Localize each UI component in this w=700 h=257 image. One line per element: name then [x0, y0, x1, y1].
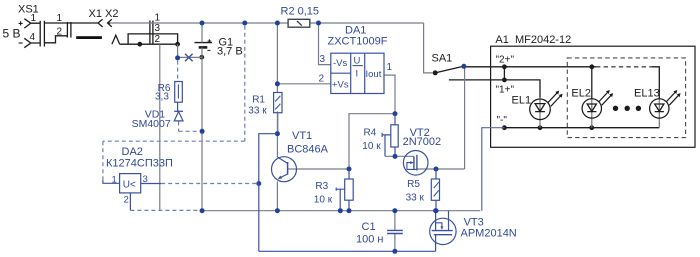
wire EL2 anode column — [591, 67, 593, 99]
svg-text:1: 1 — [31, 13, 37, 24]
wire X2 sleeve long drop to DA2 net — [159, 44, 161, 210]
junction dot rail right of R2 — [316, 21, 321, 26]
X mark broken connection — [185, 54, 193, 62]
svg-text:К1274СП33П: К1274СП33П — [106, 157, 173, 169]
junction dot VT3 drain on rail — [433, 208, 438, 213]
svg-text:"2+": "2+" — [496, 54, 515, 65]
plug body pin 2 step outline — [44, 36, 67, 43]
wire DA1 pin2 to shunt left — [277, 83, 330, 85]
terminal dot "2+" — [502, 64, 507, 69]
svg-text:10 к: 10 к — [362, 141, 381, 152]
battery G1 positive long plate — [195, 42, 213, 44]
plug body top line to X1 — [44, 22, 98, 24]
connector XS1 polarity minus sign — [19, 42, 23, 44]
svg-text:DA2: DA2 — [122, 146, 143, 158]
dashed option wire VD1 to battery column — [179, 122, 200, 132]
ellipsis bullets between EL2 and EL13 — [613, 106, 618, 111]
junction dot rail at dashed branch — [242, 21, 247, 26]
SECTION: wires — [110, 23, 480, 251]
battery G1 minus mark — [207, 49, 210, 51]
svg-text:-Vs: -Vs — [333, 58, 348, 69]
junction dot R1 bottom collector node — [275, 131, 280, 136]
svg-text:R4: R4 — [364, 127, 377, 138]
svg-text:3,7 В: 3,7 В — [217, 46, 243, 58]
svg-text:3: 3 — [143, 174, 148, 185]
svg-text:1: 1 — [57, 13, 63, 24]
wire VT1 base horizontal — [288, 168, 349, 170]
module A1 inner dashed group box — [567, 58, 685, 138]
wire "-" return rail inside module — [504, 127, 659, 129]
svg-text:2: 2 — [155, 34, 161, 45]
dashed wire DA2 pin2 to middle rail — [130, 209, 199, 211]
svg-text:EL1: EL1 — [512, 95, 532, 107]
DA1 U over I fraction line — [353, 65, 363, 67]
wire DA2 pin3 node down through rail — [258, 184, 260, 252]
svg-text:EL13: EL13 — [634, 87, 660, 99]
wire rail drop to switch SA1 — [424, 23, 433, 73]
junction dot VD1 option on battery column — [200, 129, 205, 134]
wire C1 top lead — [394, 211, 396, 231]
dashed wire DA2 pin3 to node — [161, 183, 256, 185]
junction dot R4 bottom VT2 gate — [393, 154, 398, 159]
transistor VT2 mosfet — [403, 151, 428, 176]
svg-text:U: U — [354, 56, 361, 67]
svg-text:1: 1 — [112, 174, 117, 185]
svg-text:ZXCT1009F: ZXCT1009F — [328, 36, 388, 48]
svg-text:3: 3 — [155, 23, 161, 34]
resistor R5 — [431, 169, 439, 211]
svg-text:VT1: VT1 — [292, 130, 312, 142]
plug sleeve thick bar — [76, 36, 102, 39]
svg-text:33 к: 33 к — [406, 193, 425, 204]
svg-text:3: 3 — [320, 54, 326, 65]
switch SA1 lever — [437, 66, 463, 72]
junction dot R5 bottom on rail — [434, 208, 439, 213]
wire module minus to rail end — [482, 128, 505, 211]
junction dot DA2 pin3 node — [256, 181, 261, 186]
plug X1 contact chevron — [98, 19, 103, 27]
terminal dot "-" — [502, 125, 507, 130]
wire DA1 pin1 Iout down — [384, 75, 395, 114]
junction dot EL2 cathode — [589, 125, 594, 130]
capacitor C1 — [387, 230, 403, 233]
jack X2 mating double bars — [150, 21, 153, 44]
dashed option wire rail to DA2 pin1 — [103, 26, 245, 180]
shunt resistor R2 — [288, 19, 310, 27]
wire DA2 pin1 stub — [103, 180, 120, 183]
junction dot VT2 source R5 top — [434, 167, 439, 172]
SECTION: connectors — [19, 19, 695, 148]
wire R1 node L to DA2 pin3 node — [259, 134, 278, 184]
wire battery negative column — [201, 47, 203, 210]
junction dot R3 tap on rail — [338, 208, 343, 213]
svg-text:A1 MF2042-12: A1 MF2042-12 — [495, 34, 571, 46]
svg-text:DA1: DA1 — [345, 25, 366, 37]
trimmer resistor R4 — [382, 114, 398, 157]
battery G1 negative short plate — [199, 46, 208, 49]
wire battery positive to rail — [201, 23, 203, 43]
svg-text:4: 4 — [30, 32, 36, 43]
wire "2+" rail inside module — [466, 66, 596, 68]
svg-text:2: 2 — [124, 194, 129, 205]
wire SA1 throw column down to VT2 — [464, 66, 466, 169]
module A1 enclosure box — [491, 46, 695, 147]
svg-text:R1: R1 — [252, 95, 265, 106]
svg-text:5 В: 5 В — [3, 26, 21, 40]
jack X2 body outline — [120, 34, 178, 44]
transistor VT3 mosfet — [430, 211, 456, 252]
junction dot switch throw node — [461, 64, 466, 69]
junction dot middle rail battery column — [200, 208, 205, 213]
svg-text:2: 2 — [319, 73, 325, 84]
svg-text:X1 X2: X1 X2 — [89, 8, 119, 20]
LED EL13 — [650, 90, 681, 128]
svg-text:EL2: EL2 — [571, 87, 591, 99]
wire Iout node to VT1 base column — [349, 114, 395, 169]
svg-text:C1: C1 — [362, 221, 376, 233]
svg-text:R2 0,15: R2 0,15 — [281, 6, 320, 18]
trimmer resistor R3 — [336, 169, 353, 211]
junction dot rail at R1 column — [275, 21, 280, 26]
svg-text:3,3: 3,3 — [155, 92, 169, 103]
svg-text:1: 1 — [387, 62, 393, 73]
wire middle minus rail — [202, 210, 480, 212]
junction dot X2 pins 2-3 tie — [175, 42, 180, 47]
wire "1+" rail from switch throw to EL1 — [449, 80, 540, 98]
svg-text:100 н: 100 н — [356, 234, 383, 246]
wire X2 pins to R6 node — [177, 44, 179, 58]
connector XS1 polarity plus sign — [19, 21, 23, 25]
wire VT2 right to SA1 column junction — [417, 168, 465, 170]
svg-text:33 к: 33 к — [248, 106, 267, 117]
junction dot R3 bottom on rail — [347, 208, 352, 213]
svg-text:2: 2 — [57, 27, 63, 38]
junction dot VT1 base R3 node — [347, 167, 352, 172]
svg-text:APM2014N: APM2014N — [461, 227, 517, 239]
wire bottom negative return rail — [259, 250, 436, 252]
battery G1 plus mark — [208, 39, 212, 43]
svg-text:SA1: SA1 — [432, 53, 453, 65]
svg-text:+Vs: +Vs — [332, 80, 349, 91]
resistor R1 — [274, 93, 282, 113]
resistor R6 — [175, 82, 183, 103]
svg-text:BC846A: BC846A — [287, 144, 329, 156]
SECTION: components — [103, 19, 505, 254]
wire VT1 collector column — [276, 111, 278, 157]
transistor VT1 — [272, 157, 297, 182]
svg-text:"-": "-" — [497, 115, 508, 126]
wire R4 bottom to VT2 — [385, 155, 414, 157]
wire VT1 emitter column — [276, 181, 278, 210]
connector XS1 pin 1 contact — [24, 19, 40, 28]
wire DA2 pin3 solid stub — [141, 183, 162, 185]
wire EL13 anode column — [652, 67, 659, 99]
junction dot C1 bottom on return rail — [392, 249, 397, 254]
junction dot on X2 sleeve line — [137, 42, 142, 47]
LED EL2 — [582, 90, 613, 128]
svg-text:SM4007: SM4007 — [132, 118, 171, 130]
svg-text:R5: R5 — [407, 179, 420, 190]
dashed option wire node to R6 — [177, 61, 179, 80]
junction dot EL1 cathode — [538, 125, 543, 130]
diode VD1 — [174, 111, 183, 121]
switch SA1 fixed contact dot — [433, 70, 438, 75]
IC DA2 box — [120, 174, 141, 193]
jack X2 tip spring zigzag — [112, 35, 120, 44]
connector XS1 mating double bars — [40, 21, 44, 47]
svg-text:10 к: 10 к — [314, 194, 333, 205]
svg-text:2N7002: 2N7002 — [403, 136, 442, 148]
wire 2+ to 1+ jumper — [503, 67, 505, 80]
wire R1 column from rail — [276, 23, 278, 93]
wire DA1 pin3 stub to shunt right — [319, 23, 331, 65]
wire C1 bottom lead — [394, 234, 396, 252]
junction dot node blue at X2/R6 — [175, 55, 180, 60]
junction dot C1 top on rail — [392, 208, 397, 213]
junction dot Iout R4 node — [393, 111, 398, 116]
svg-text:U<: U< — [123, 179, 136, 190]
svg-text:R3: R3 — [315, 181, 328, 192]
wire R6 to VD1 — [177, 102, 179, 111]
wire top positive rail right of R2 — [310, 22, 424, 24]
junction dot battery minus node — [199, 55, 204, 60]
junction dot DA1 pin2 R1 node — [275, 81, 280, 86]
svg-text:Iout: Iout — [366, 69, 382, 80]
wire R1 bottom lead — [277, 113, 279, 134]
svg-text:I: I — [356, 69, 359, 80]
wire broken link to battery with X mark — [178, 56, 202, 58]
junction dot VT1 emitter on rail — [275, 208, 280, 213]
wire "2+" rail dashed continuation — [596, 66, 652, 68]
connector XS1 pin 4 contact — [24, 38, 40, 47]
wire top positive rail left of R2 — [110, 22, 288, 24]
plug mating double bars second pair — [67, 22, 71, 38]
LED EL1 — [530, 91, 563, 128]
jack X2 contact chevron — [108, 19, 112, 27]
junction dot rail at battery top — [200, 21, 205, 26]
wire DA2 pin2 down — [129, 193, 131, 211]
terminal dot "1+" — [502, 78, 507, 83]
junction dot EL2 anode column — [589, 64, 594, 69]
IC DA1 box — [331, 53, 384, 93]
